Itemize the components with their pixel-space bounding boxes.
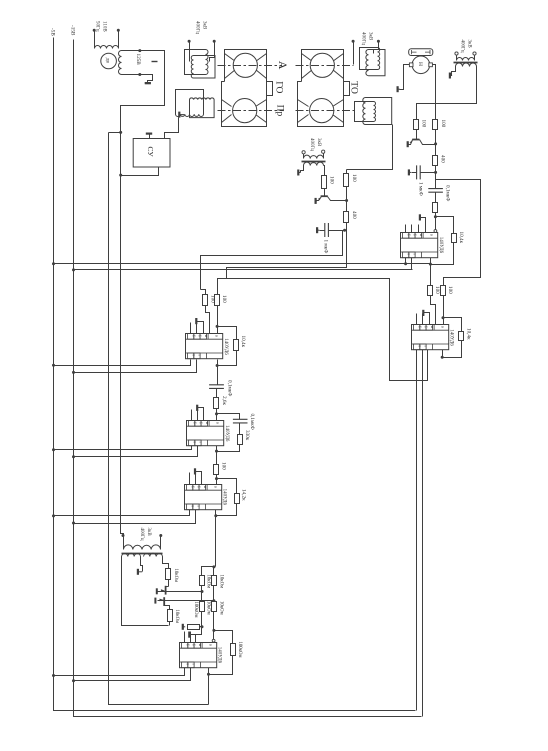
- ground near 125V: [145, 82, 151, 84]
- pin stub IC2: [418, 225, 420, 233]
- Q3 emitter: [159, 591, 166, 593]
- node stage2 out: [215, 450, 218, 453]
- resistor before IC2: [433, 203, 438, 213]
- resistor R100b: [433, 120, 438, 130]
- pin stub ICright: [416, 314, 418, 325]
- wire chain down: [435, 166, 437, 189]
- tube unit V1 (GO): [225, 50, 267, 96]
- wire ICright supply1 down: [416, 350, 418, 711]
- wire SU bottom to column: [121, 167, 159, 176]
- resistor Rfb ICright 10.4k: [459, 332, 464, 341]
- svg-text:0,1мкФ: 0,1мкФ: [444, 185, 450, 201]
- transformer T1 right terminal: [118, 31, 120, 46]
- wire fb2: [239, 423, 241, 435]
- svg-text:400: 400: [351, 211, 357, 219]
- terminal IC2 in: [434, 230, 437, 233]
- transistor Q3: [165, 586, 167, 595]
- resistor Rp1 100: [215, 295, 220, 306]
- op-amp 140UD6: [412, 325, 449, 350]
- resistor Ra' 100: [428, 286, 433, 296]
- op-amp 140UD6: [186, 334, 223, 359]
- wire ICright gnd pin: [424, 313, 430, 325]
- svg-text:в: в: [209, 644, 214, 646]
- wire IC1 supply2 to rail2: [74, 360, 197, 373]
- transformer B1 primary: [304, 155, 324, 158]
- svg-text:в: в: [215, 335, 220, 337]
- capacitor C 0.1uF fb2: [233, 419, 248, 423]
- wire 125V top to SU column: [121, 51, 165, 535]
- svg-text:100: 100: [221, 295, 227, 303]
- ground A2: [178, 112, 180, 118]
- wire IC2 fb top: [436, 217, 454, 234]
- pin stub ICright: [422, 314, 424, 325]
- svg-text:10кОм: 10кОм: [173, 569, 178, 583]
- motor M1: [101, 53, 117, 69]
- svg-text:б: б: [185, 644, 189, 646]
- resistor 400 (mid): [344, 212, 349, 223]
- wire ICright supply2 down: [422, 350, 424, 717]
- svg-text:Н: Н: [417, 62, 423, 66]
- svg-text:400Гц: 400Гц: [195, 21, 200, 34]
- wire Rp1 to IC1: [217, 306, 219, 334]
- svg-text:б: б: [190, 486, 194, 488]
- pin stub IC2: [411, 225, 413, 233]
- svg-text:400Гц: 400Гц: [460, 40, 465, 53]
- capacitor C 0.1uF: [428, 189, 443, 193]
- node IC1 out: [216, 364, 219, 367]
- pin stub IC1: [196, 323, 198, 334]
- svg-text:в: в: [216, 422, 221, 424]
- wire IC3 fb top: [217, 479, 237, 494]
- wire IC4 supply2 to rail2: [74, 668, 191, 681]
- ground stage2: [196, 405, 198, 411]
- transformer B2 secondary b: [144, 553, 163, 556]
- resistor Rfb IC2 10.4k: [452, 234, 457, 243]
- resistor 10k chain A lower: [200, 602, 205, 612]
- wire supply H2: [74, 269, 413, 271]
- transformer B3 primary: [457, 58, 475, 61]
- transformer A3 winding 1: [360, 48, 380, 70]
- transistor Q2: [321, 195, 328, 197]
- svg-text:400Гц: 400Гц: [139, 528, 144, 541]
- svg-text:3кВ: 3кВ: [467, 40, 472, 49]
- node 125V top: [138, 49, 141, 52]
- wire SU top ground stub: [149, 135, 151, 139]
- svg-text:100: 100: [328, 176, 334, 184]
- svg-text:400Гц: 400Гц: [361, 32, 366, 45]
- pin stub IC4: [190, 632, 192, 643]
- wire IC4 output down to mid rail: [208, 668, 210, 705]
- wire P right down to R: [433, 65, 436, 120]
- op-amp 140UD6: [187, 421, 224, 446]
- wire ICright aux loop: [218, 279, 428, 381]
- wire IC2 out to Ra': [430, 265, 432, 286]
- svg-text:10кОм: 10кОм: [219, 575, 224, 589]
- svg-text:б: б: [424, 326, 428, 328]
- pin stub IC2st: [197, 410, 199, 421]
- node IC2 fb tap: [434, 215, 437, 218]
- wire IC1 fb top: [218, 327, 237, 340]
- svg-text:10,4к: 10,4к: [458, 232, 464, 244]
- wire IC2 supply1: [405, 258, 407, 264]
- Q4 base lead: [165, 606, 170, 610]
- transformer B3 secondary: [456, 63, 477, 67]
- svg-text:3кВ: 3кВ: [368, 32, 373, 41]
- axis line V2 top: [296, 65, 354, 67]
- Q4 collector to chain B: [165, 600, 214, 602]
- wire rail -15V: [74, 40, 422, 717]
- polarity dash: [152, 61, 158, 63]
- resistor 100k horizontal: [188, 625, 200, 630]
- transformer A1 left terminal: [189, 42, 191, 62]
- svg-text:10кОм: 10кОм: [206, 575, 211, 589]
- transformer B3 core: [454, 62, 478, 64]
- wire cap to R2.6k: [216, 389, 218, 398]
- axis line V1 top: [218, 65, 282, 67]
- Q3 emitter bar: [156, 588, 158, 594]
- svg-text:10,4к: 10,4к: [465, 328, 471, 340]
- transformer B1 secondary: [304, 162, 324, 165]
- svg-text:100кОм: 100кОм: [237, 642, 242, 658]
- svg-text:-5В: -5В: [49, 28, 55, 36]
- ground Q1 emitter: [407, 141, 409, 147]
- wire IC1 output down: [217, 360, 219, 385]
- svg-text:125В: 125В: [135, 54, 141, 66]
- svg-text:А: А: [276, 61, 290, 70]
- node IC3 out: [214, 514, 217, 517]
- op-amp 140UD6: [401, 233, 438, 258]
- ground Q2 emitter: [315, 198, 317, 204]
- wire B2 sec right: [163, 557, 169, 569]
- node spine split: [212, 565, 215, 568]
- wire loop to ICright input: [436, 180, 481, 286]
- wire stage2 output down: [216, 446, 218, 465]
- tube P: [412, 56, 430, 74]
- svg-text:100: 100: [434, 286, 440, 294]
- transformer A4 winding 1: [355, 102, 376, 122]
- svg-text:1 мкФ: 1 мкФ: [323, 240, 329, 254]
- winding 125V bottom lead: [122, 74, 140, 76]
- wire IC3 fb return: [216, 504, 237, 516]
- wire B2 center tap: [141, 557, 143, 572]
- svg-text:100: 100: [447, 286, 453, 294]
- transistor Q4: [163, 597, 165, 606]
- node IC4 fb tap: [212, 629, 215, 632]
- wire chain A to IC4 gnd pin: [196, 612, 202, 643]
- capacitor C 1uF mid: [325, 223, 329, 237]
- wire IC4 gnd stub: [190, 634, 196, 636]
- terminal B3 right: [473, 52, 476, 55]
- svg-text:140УД6: 140УД6: [449, 329, 454, 346]
- wire stage2 fb top: [217, 414, 240, 420]
- svg-text:н: н: [198, 644, 202, 646]
- transformer A3 left terminal: [353, 42, 355, 65]
- pin stub IC4: [184, 632, 186, 643]
- svg-text:400: 400: [440, 155, 446, 163]
- resistor 10k chain A upper: [200, 576, 205, 586]
- wire Rin1 to IC1: [206, 306, 210, 334]
- transformer B2 core: [122, 553, 163, 555]
- svg-text:330к: 330к: [244, 430, 250, 441]
- resistor 100 Q2 base: [322, 176, 327, 189]
- pin stub IC2st: [191, 410, 193, 421]
- wire B2 sec left down: [122, 557, 169, 626]
- svg-text:140УД6: 140УД6: [438, 237, 443, 254]
- resistor Rb' 100: [441, 286, 446, 296]
- svg-text:140УД6: 140УД6: [224, 425, 229, 442]
- svg-text:10кОм: 10кОм: [174, 610, 179, 624]
- node Q2 collector: [345, 199, 348, 202]
- svg-text:СУ: СУ: [146, 147, 155, 158]
- wire branch to mid rail: [109, 132, 121, 134]
- svg-text:0,1мкФ: 0,1мкФ: [249, 414, 255, 430]
- node IC2 out: [429, 263, 432, 266]
- terminal B1 left: [302, 151, 305, 154]
- wire Rb' to ICright: [443, 296, 445, 325]
- axis line V1 bottom: [218, 110, 284, 112]
- ground C1uF: [408, 169, 410, 175]
- ground IC2: [419, 214, 421, 220]
- svg-text:б: б: [417, 326, 421, 328]
- wire B3 output to R100a: [417, 67, 477, 120]
- transformer T1 left terminal: [94, 31, 96, 46]
- wire H3: [227, 231, 347, 279]
- node Q4 collector: [212, 599, 215, 602]
- svg-text:100: 100: [351, 174, 357, 182]
- svg-text:б: б: [197, 486, 201, 488]
- svg-text:б: б: [199, 422, 203, 424]
- svg-text:н: н: [205, 422, 209, 424]
- Q2 emitter: [317, 197, 322, 201]
- ground P: [397, 86, 399, 92]
- transistor Q1: [412, 139, 419, 141]
- junction IC2 supply1: [404, 262, 407, 265]
- transformer A3 winding 2: [366, 50, 385, 76]
- node IC4 out: [207, 673, 210, 676]
- Q1 collector: [420, 140, 436, 145]
- wire R to IC2 input: [435, 213, 437, 231]
- wire IC1 supply1 to rail1: [54, 360, 191, 366]
- resistor R100a: [414, 120, 419, 130]
- wire IC2 output stub: [430, 258, 432, 265]
- wire stage2 supply2 to rail2: [74, 446, 198, 457]
- svg-text:0,1мкФ: 0,1мкФ: [226, 380, 232, 396]
- svg-text:в: в: [214, 486, 219, 488]
- resistor 330k: [238, 435, 243, 445]
- svg-text:3кВ: 3кВ: [202, 21, 207, 30]
- svg-text:б: б: [406, 234, 410, 236]
- node stage2 fb tap: [215, 412, 218, 415]
- transformer A2 winding 2: [190, 98, 215, 118]
- wire IC1 gnd pin: [197, 322, 204, 334]
- wire chain down to H3: [346, 223, 348, 268]
- ground stage3: [194, 468, 196, 474]
- svg-text:-15В: -15В: [69, 25, 75, 36]
- ground B2 center tap: [137, 569, 139, 575]
- svg-text:140УД6: 140УД6: [217, 647, 222, 664]
- pin stub IC2: [405, 225, 407, 233]
- svg-text:1 мкФ: 1 мкФ: [417, 182, 423, 196]
- svg-text:10кОм: 10кОм: [219, 601, 224, 615]
- svg-text:н: н: [203, 486, 207, 488]
- resistor 10k chain B lower: [212, 602, 217, 612]
- ground SU: [146, 133, 152, 135]
- wire rail -5V: [54, 38, 416, 711]
- node stage3 fb tap: [215, 477, 218, 480]
- node chain A / R100k: [201, 625, 204, 628]
- node ICright fb tap: [442, 316, 445, 319]
- svg-text:б: б: [191, 335, 195, 337]
- wire IC2 fb return: [431, 243, 454, 265]
- wire to Q2 collector node: [346, 187, 348, 201]
- ground C1uF mid: [316, 227, 318, 233]
- svg-text:н: н: [419, 234, 423, 236]
- transformer A1 winding 2: [191, 56, 215, 79]
- wire L1 Q2out to IC1 input: [201, 231, 343, 290]
- tube P top bar: [409, 49, 433, 56]
- capacitor C 0.1uF stage2: [209, 385, 224, 389]
- winding 125V: [119, 51, 122, 75]
- wire ICright output: [442, 350, 444, 358]
- svg-text:100кОм: 100кОм: [193, 602, 198, 618]
- svg-text:ТО: ТО: [349, 81, 359, 94]
- resistor 10k chain B upper: [212, 576, 217, 586]
- svg-text:Пр: Пр: [275, 105, 285, 117]
- wire P chain: [435, 130, 437, 156]
- winding 125V top lead: [122, 50, 140, 52]
- wire A4 output to Q2 chain: [347, 125, 393, 170]
- wire 125V to ground: [140, 75, 153, 84]
- ground B3: [449, 73, 451, 79]
- wire IC1 fb bottom: [218, 351, 237, 366]
- Q1 emitter: [409, 140, 413, 145]
- transformer A2 winding 1: [176, 90, 204, 117]
- wire cap to R: [435, 193, 437, 203]
- wire B1 sec to R100: [324, 166, 325, 176]
- svg-text:3кВ: 3кВ: [316, 138, 321, 147]
- ground ICright: [422, 310, 424, 316]
- svg-text:2,6к: 2,6к: [221, 396, 227, 405]
- ground IC1: [195, 318, 197, 324]
- op-amp 140UD6: [185, 485, 222, 510]
- terminal B3 left: [455, 52, 458, 55]
- transformer B1 core: [302, 161, 326, 163]
- resistor R400 (top): [433, 156, 438, 166]
- Q4 emitter: [158, 600, 165, 602]
- wire B3 sec left: [452, 67, 456, 76]
- transformer A1 right terminal: [210, 42, 215, 62]
- svg-text:100: 100: [421, 120, 427, 128]
- Q4 emitter bar: [154, 598, 156, 604]
- svg-text:10,4к: 10,4к: [240, 336, 246, 348]
- node ICright out: [441, 356, 444, 359]
- control unit SU: [133, 139, 170, 168]
- pin stub IC3: [195, 473, 197, 485]
- wire B1 sec left: [301, 166, 304, 173]
- transformer B2 right terminal: [160, 536, 162, 548]
- transformer B2 left terminal: [123, 536, 125, 548]
- svg-text:3кВ: 3кВ: [146, 528, 151, 537]
- resistor 2.6k: [214, 398, 219, 409]
- wire R to Q2 base: [324, 189, 326, 196]
- transformer A3 right terminal: [374, 42, 379, 54]
- wire to IC stage2: [216, 409, 218, 421]
- wire IC3 supply1 to rail1: [54, 510, 190, 516]
- terminal IC4 in: [212, 639, 215, 642]
- wire ICright fb top: [444, 318, 462, 332]
- svg-text:б: б: [192, 644, 196, 646]
- transformer B2 primary: [124, 545, 161, 550]
- wire IC3 gnd pin: [196, 472, 202, 485]
- svg-text:б: б: [198, 335, 202, 337]
- svg-text:н: н: [204, 335, 208, 337]
- transformer T1 winding: [95, 46, 119, 49]
- resistor 10k Q4 base: [168, 610, 173, 622]
- node Q2 out tap: [343, 229, 346, 232]
- svg-text:140УД6: 140УД6: [222, 489, 227, 506]
- wire SU to transformer A2: [165, 118, 179, 139]
- svg-text:б: б: [413, 234, 417, 236]
- svg-text:б: б: [192, 422, 196, 424]
- node C1uF tap: [434, 171, 437, 174]
- svg-text:в: в: [430, 234, 435, 236]
- wire IC2 supply2: [411, 258, 413, 270]
- capacitor C 1uF: [417, 165, 421, 179]
- svg-text:10кОм: 10кОм: [206, 601, 211, 615]
- resistor 100 Q2 coll: [344, 174, 349, 187]
- svg-text:ГО: ГО: [274, 81, 284, 93]
- wire IC3 supply2 to rail2: [74, 510, 196, 524]
- svg-text:100: 100: [440, 120, 446, 128]
- wire IC4 fb top: [214, 631, 233, 644]
- wire chain A top: [202, 567, 216, 576]
- transformer A4 winding 2: [363, 98, 392, 125]
- op-amp 140UD6: [180, 643, 217, 668]
- wire ICright fb return: [443, 341, 462, 358]
- svg-text:100: 100: [220, 462, 226, 470]
- node IC1 fb tap: [216, 325, 219, 328]
- resistor 100k fb IC4: [231, 644, 236, 656]
- svg-text:110В: 110В: [102, 21, 107, 32]
- wire fb2 return: [217, 445, 240, 452]
- Q3 collector to chain A: [166, 591, 202, 593]
- wire to IC3: [216, 475, 218, 485]
- wire P left to ground: [400, 65, 410, 90]
- pin stub IC3: [189, 473, 191, 485]
- svg-text:14,2к: 14,2к: [241, 489, 247, 501]
- wire IC2st gnd pin: [198, 408, 204, 421]
- svg-text:400Гц: 400Гц: [309, 138, 314, 151]
- resistor 14.2k: [235, 494, 240, 504]
- resistor 100 stage3: [214, 465, 219, 475]
- ground R100k: [182, 624, 184, 630]
- wire IC3 output down to driver: [215, 510, 217, 567]
- svg-text:дв: дв: [104, 58, 110, 64]
- transformer A1 winding 1: [185, 50, 209, 75]
- pin stub IC1: [190, 323, 192, 334]
- Q2 collector: [328, 197, 347, 201]
- axis line V2 bottom: [296, 110, 355, 112]
- node Q3 collector: [201, 590, 204, 593]
- wire R100a to Q1 base: [416, 130, 418, 138]
- resistor Rin1 100: [203, 295, 208, 306]
- transformer B2 secondary a: [122, 553, 141, 556]
- wire IC4 supply1 to rail1: [54, 668, 185, 676]
- terminal B1 right: [322, 150, 325, 153]
- wire rail mid: [109, 133, 209, 705]
- resistor 10k Q3 base: [166, 569, 171, 580]
- wire stage2 supply1 to rail1: [54, 446, 192, 450]
